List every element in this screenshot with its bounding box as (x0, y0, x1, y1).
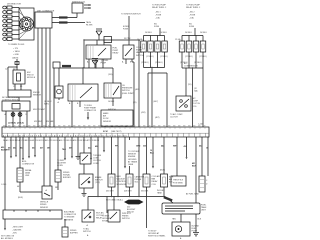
wire bus right drop (146, 197, 148, 229)
wire to prime connector (82, 68, 84, 84)
junction block on feed (104, 37, 112, 43)
ALDL side label (25, 169, 32, 177)
injector 6 (186, 41, 192, 52)
node tach junction (16, 66, 17, 67)
knock sensor label (33, 92, 42, 97)
svg-text:SET AND RESUME: SET AND RESUME (2, 96, 19, 99)
wire C2 label (115, 146, 120, 148)
wire A8 label (47, 148, 50, 150)
wire ECM A5 down (28, 137, 30, 159)
svg-text:GROUND AT: GROUND AT (148, 232, 160, 235)
svg-text:TACH: TACH (86, 21, 92, 24)
svg-text:SERIAL: SERIAL (25, 169, 32, 172)
wire ECM C2 to bus (117, 137, 119, 197)
wire ECM A8 to VSS (49, 137, 51, 186)
distributor label (7, 4, 22, 6)
svg-text:RELAY TERM. C: RELAY TERM. C (152, 6, 167, 9)
cutout pin label (87, 224, 89, 227)
svg-text:(39): (39) (133, 102, 137, 104)
bottom left list (12, 227, 24, 235)
svg-text:WOT A/C: WOT A/C (96, 212, 105, 215)
wire C9b label (184, 145, 187, 148)
node ac loop junction (151, 72, 152, 73)
wire ECM A10 down (64, 137, 66, 161)
wire cruise pin C to ECM (19, 111, 21, 127)
wire ignition feed (128, 16, 130, 45)
svg-text:(12 BLK): (12 BLK) (8, 123, 16, 125)
splice2 body (92, 61, 98, 69)
svg-text:(120): (120) (108, 74, 113, 76)
svg-text:- FUSE: - FUSE (189, 15, 196, 17)
wire ECM C9b down (186, 137, 188, 159)
left feed wire label (44, 101, 52, 106)
wire ECM A2b down (15, 137, 17, 157)
svg-text:AT FUEL TANK: AT FUEL TANK (186, 193, 200, 196)
wire EGR to bus (111, 187, 113, 197)
wire dist pin C to ECM (45, 28, 47, 127)
idle air solenoid (161, 174, 168, 187)
wire ALDL down (20, 182, 42, 192)
spark plug wire 6 (3, 29, 19, 32)
connector symbol pin C (18, 113, 22, 117)
oil switch lower label (108, 101, 115, 103)
svg-text:UNIT: UNIT (201, 210, 207, 212)
power steering switch (108, 210, 120, 222)
wire ECM A12 to ground (77, 137, 79, 156)
VSS label (40, 202, 49, 209)
svg-text:ALDL: ALDL (22, 160, 27, 163)
coil terminal arrow 2 (84, 7, 91, 9)
wire left injector rail (144, 35, 165, 37)
svg-text:452: 452 (20, 147, 23, 150)
svg-text:(467): (467) (154, 101, 159, 103)
fan relay label (152, 175, 162, 186)
wire ECM C11 to sensor conn (201, 137, 203, 176)
cold start relay K2 (123, 45, 134, 59)
distributor connector label (37, 11, 55, 13)
wire relay K2 pins (126, 59, 132, 64)
maf label (103, 112, 112, 123)
svg-text:389: 389 (55, 187, 58, 189)
canister label (135, 176, 145, 184)
wire esc feed (8, 67, 17, 90)
svg-text:(467): (467) (155, 117, 160, 119)
wire dist pin B to ECM (41, 28, 43, 127)
svg-text:451: 451 (8, 147, 11, 150)
fuel tank sender (162, 203, 200, 214)
connector symbol pin B (11, 113, 15, 117)
fuel pump (in-tank) (55, 86, 63, 100)
wire ECM A11 down (71, 137, 73, 159)
wire A7 label (40, 147, 43, 150)
svg-text:TO A/C: TO A/C (83, 228, 90, 231)
canister lower label (124, 191, 132, 193)
wire relay feed bus (84, 40, 140, 68)
power steering label (122, 213, 131, 220)
oil pressure switch (104, 83, 121, 98)
wire to oil pressure switch (112, 68, 114, 83)
wire EST to coil (52, 13, 77, 18)
fuel pump relay label (113, 48, 120, 55)
brake switch box (79, 174, 93, 188)
wire right injector rail (182, 35, 203, 37)
splice bus ground (88, 196, 165, 198)
wire A4 label (20, 147, 23, 150)
wire right injector feed (194, 28, 196, 36)
distributor internal wires (19, 8, 29, 40)
svg-text:CONNECTOR: CONNECTOR (84, 110, 97, 112)
svg-text:435 GRY: 435 GRY (106, 191, 114, 193)
svg-text:(59): (59) (188, 84, 192, 86)
svg-text:TANK: TANK (157, 192, 163, 195)
wire C12 label (206, 148, 208, 150)
wire C5 label (136, 146, 141, 148)
left rail labels (137, 32, 167, 41)
wire injector drops right (182, 36, 203, 42)
svg-text:- 10A: - 10A (155, 17, 160, 20)
wire C6b label (143, 146, 146, 148)
wire relay K1 pins (89, 59, 103, 68)
wire maf burnoff to ECM (138, 40, 140, 127)
cluster wire label (55, 187, 58, 189)
esc pin labels (5, 69, 15, 71)
above strip labels right (141, 112, 160, 119)
svg-text:(465): (465) (135, 89, 140, 91)
relay K1 pin labels (87, 61, 103, 64)
cruise pin labels (5, 113, 28, 116)
wire ECM B2 down (90, 137, 92, 161)
wire ECM C12 down (207, 137, 209, 176)
wire ECM A3 to ALDL (19, 137, 21, 168)
wire A2b label (13, 147, 17, 150)
ac feed label (188, 84, 192, 86)
connector C2 box (53, 62, 60, 68)
svg-text:- IGN: - IGN (12, 233, 17, 235)
wire ECM A9 down (57, 137, 59, 170)
ac clutch label (193, 97, 201, 108)
svg-text:DATA: DATA (25, 172, 30, 175)
wire right injector returns (182, 52, 203, 68)
svg-text:SIGNAL: SIGNAL (63, 174, 70, 177)
svg-text:(4 BLK): (4 BLK) (17, 122, 24, 125)
right injector fuse list (189, 12, 196, 29)
to fuel pump note (84, 105, 97, 112)
wire injector drops left (144, 36, 165, 42)
svg-text:LINK: LINK (25, 175, 30, 177)
right rail labels (175, 32, 207, 41)
wire ECM C9 to TPS (176, 137, 178, 176)
svg-text:CLUTCH: CLUTCH (170, 117, 178, 119)
wire left injector returns (144, 52, 165, 68)
sender ground label (198, 219, 202, 221)
svg-text:C-100: C-100 (1, 184, 6, 186)
wire ECM B4 down (103, 137, 105, 153)
wire sensor to cruise (18, 97, 20, 101)
injector 4 (162, 41, 168, 52)
wire ECM C5 to bus (138, 137, 140, 197)
relay K2 pin labels (122, 61, 132, 64)
svg-text:TAN: TAN (172, 218, 176, 221)
wire ECM B1 to TCC (83, 137, 85, 153)
svg-text:WHT): WHT) (44, 104, 49, 106)
svg-text:BLK: BLK (150, 153, 155, 155)
svg-text:THROTTLE: THROTTLE (173, 180, 184, 182)
cluster connector side label (63, 172, 71, 179)
svg-text:RELAY TERM. C: RELAY TERM. C (186, 6, 201, 9)
distributor cap housing (19, 8, 34, 40)
ECM connector strip (2, 127, 209, 137)
fuel pump relay K1 (86, 45, 111, 59)
EGR label (117, 176, 127, 186)
right injector wire labels (180, 56, 207, 64)
injector 8 (200, 41, 206, 52)
svg-text:MASS: MASS (103, 112, 109, 115)
svg-text:D6 A5 C10 B3 D11 A9: D6 A5 C10 B3 D11 A9 C13 B8 D14 A11 C18 B… (3, 139, 99, 142)
svg-text:TO SPARK PLUGS: TO SPARK PLUGS (8, 43, 25, 46)
svg-text:- 10A: - 10A (189, 17, 194, 20)
wire cruise pin A to ECM (5, 111, 7, 127)
fuel pump bus label (62, 65, 71, 67)
speed buffer box (62, 227, 68, 237)
AC cutout label (96, 212, 105, 220)
svg-text:NOT USED ON ALL: NOT USED ON ALL (106, 199, 123, 202)
svg-text:SENSOR: SENSOR (33, 95, 42, 97)
svg-text:459: 459 (69, 147, 72, 150)
spark plug wire 7 (3, 33, 19, 36)
ac compressor clutch (176, 96, 191, 111)
bus right note (148, 231, 165, 238)
svg-text:- GAUGES: - GAUGES (12, 229, 22, 232)
svg-text:BUFFER: BUFFER (63, 177, 71, 179)
svg-text:ECM: ECM (103, 131, 108, 133)
wire right bank down (192, 68, 194, 127)
ECM fuse label (123, 26, 131, 40)
svg-text:+ TACH: + TACH (13, 50, 20, 53)
wire dist pin D to ECM (49, 28, 51, 127)
idle air label (169, 177, 174, 184)
cruise module label (2, 96, 21, 102)
TCC label (93, 155, 102, 165)
svg-text:450: 450 (1, 146, 4, 149)
wire left injector bus (144, 67, 165, 69)
wire tach lead (16, 59, 18, 67)
bus junction nodes (97, 196, 164, 197)
svg-text:DK BLU: DK BLU (145, 32, 152, 34)
right end wire label (198, 124, 203, 126)
speed buffer label (70, 230, 78, 235)
svg-text:RIGHT KICK PANEL: RIGHT KICK PANEL (148, 235, 165, 238)
wire diag to tank (165, 197, 173, 204)
svg-text:SWITCH: SWITCH (122, 218, 130, 220)
wire sender ground (195, 214, 197, 232)
wire idle air to bus (163, 187, 165, 197)
tach filter label (86, 21, 93, 27)
svg-text:BLK: BLK (192, 166, 197, 168)
sensor return connector (199, 176, 205, 192)
wire left feed to ECM (53, 68, 55, 127)
fuel pump prime connector (68, 84, 98, 101)
svg-text:(17 BLK): (17 BLK) (141, 62, 149, 64)
ground fuel tank (193, 233, 199, 236)
wire dist pin A to ECM (37, 28, 39, 127)
wire EST bypass (52, 22, 85, 24)
wire B3 label (95, 145, 98, 148)
splice lozenge (124, 200, 144, 205)
wire ECM A1 down (4, 137, 6, 210)
fuel tank note (157, 190, 164, 195)
ac compressor label (184, 62, 198, 68)
arrow fuel pump prime (87, 112, 89, 120)
ignition switch feed label (121, 14, 141, 16)
svg-text:FUSE: FUSE (123, 29, 129, 31)
coil terminal arrow 1 (84, 4, 91, 6)
cluster connector (55, 170, 61, 182)
svg-text:424 TAN: 424 TAN (46, 120, 54, 123)
wire left bank to ECM (151, 68, 153, 128)
svg-text:+ 12V: + 12V (13, 48, 19, 50)
ac lower note (170, 113, 183, 119)
long wire labels (133, 89, 140, 104)
wire brake switch down (83, 188, 85, 193)
node right bus junction (192, 67, 193, 68)
bottom left note (1, 236, 15, 240)
wire maf pins (105, 126, 126, 127)
svg-text:(17 BLK): (17 BLK) (160, 56, 168, 58)
wire harness down (4, 219, 6, 224)
AC cutout switch (82, 210, 94, 222)
wire ECM A6 down (34, 137, 36, 158)
knock sensor module box (13, 70, 25, 84)
wire cruise pin D to ECM (26, 111, 28, 127)
svg-text:- INJ 1: - INJ 1 (155, 12, 161, 14)
fan lower label (141, 191, 149, 193)
mass air flow sensor (101, 110, 133, 126)
ECM strip cell dividers (8, 133, 206, 137)
svg-text:453: 453 (32, 147, 35, 150)
ECM strip pin ticks top (5, 127, 205, 129)
TPS box (171, 176, 186, 186)
fuel pump motor (172, 222, 190, 236)
wire ac loop (148, 73, 167, 127)
spark plug wire 3 (3, 15, 19, 18)
svg-text:12 GA: 12 GA (175, 38, 181, 41)
splice to fuel pump circuit (92, 58, 98, 60)
distributor connector box (35, 12, 52, 28)
svg-text:16: 16 (206, 148, 208, 150)
svg-text:DK BLU: DK BLU (160, 32, 167, 34)
wire canister to bus (129, 187, 131, 197)
fan relay coil (143, 174, 150, 187)
svg-text:DK BLU: DK BLU (185, 32, 192, 34)
bus left drop note (102, 216, 111, 223)
TPS text (173, 180, 184, 185)
wire left injector feed (159, 28, 161, 36)
svg-text:(BLK): (BLK) (18, 197, 23, 199)
spark plug wire 1 (3, 6, 19, 9)
wire sender to pump (180, 214, 182, 222)
knock module pin labels (13, 86, 22, 88)
svg-text:BLK/WHT: BLK/WHT (1, 150, 11, 152)
svg-text:C-100: C-100 (198, 124, 203, 126)
wire A11 label (69, 147, 72, 150)
svg-text:RELAY: RELAY (113, 52, 120, 55)
fuel pump feed label right (186, 5, 201, 10)
left bank wire label (154, 101, 159, 103)
wire C9 label (173, 146, 178, 148)
svg-text:MODULE: MODULE (27, 77, 36, 79)
wire right bus end to ECM (202, 68, 204, 127)
svg-text:COOLANT: COOLANT (152, 175, 162, 178)
EGR lower label (106, 191, 114, 193)
svg-text:FILTER: FILTER (86, 25, 93, 27)
tank wire label (163, 196, 172, 202)
svg-text:451: 451 (192, 162, 195, 165)
wire prime pin B (79, 101, 81, 107)
knock sensor module label (27, 72, 36, 79)
svg-text:PUMP: PUMP (101, 63, 107, 65)
svg-text:BRAKE: BRAKE (95, 176, 102, 179)
wire harness to buffer (64, 219, 66, 227)
wire fuel pump bus (60, 67, 113, 69)
EST wire label (59, 16, 68, 18)
svg-text:- SES LIGHT: - SES LIGHT (12, 227, 24, 229)
svg-text:C2: C2 (5, 69, 7, 71)
EST bypass label (59, 21, 68, 23)
cruise control module box (2, 101, 30, 111)
wire A1 labels (1, 146, 11, 186)
svg-text:SWITCH: SWITCH (136, 55, 144, 57)
ECM strip cell ids (3, 134, 127, 137)
oil pressure switch label (122, 85, 134, 95)
svg-text:RELAY: RELAY (152, 180, 159, 183)
wire ECM A7 to VSS (43, 137, 45, 186)
node prime feed (82, 67, 96, 68)
distributor cap circle (20, 17, 34, 31)
svg-text:SOL: SOL (135, 182, 139, 184)
injector 7 (193, 41, 199, 52)
splice2 label (101, 60, 109, 65)
cutout lower note (83, 228, 91, 238)
right bank wire label (194, 88, 198, 93)
svg-text:FUSE: FUSE (154, 26, 160, 28)
wire ECM B3 to bus (97, 137, 99, 197)
svg-text:428 GRY: 428 GRY (124, 191, 132, 193)
svg-text:+ GND: + GND (13, 54, 19, 56)
svg-text:COMPRESSOR: COMPRESSOR (184, 66, 198, 68)
instrument harness connector (3, 210, 62, 219)
wire TCC down (83, 164, 85, 174)
svg-text:430 PPL/WHT: 430 PPL/WHT (33, 109, 46, 111)
svg-text:422: 422 (88, 147, 91, 150)
left injector wire labels (141, 56, 168, 64)
fuel pump feed label left (152, 5, 167, 10)
ECM pin label row below (3, 139, 99, 142)
svg-text:TO IGNITION SWITCH: TO IGNITION SWITCH (121, 14, 141, 16)
node relay feed junctions (83, 39, 129, 40)
wire cold start to ECM (132, 62, 134, 127)
svg-text:410: 410 (184, 145, 187, 148)
svg-text:COIL: COIL (193, 106, 197, 108)
svg-text:(432): (432) (141, 112, 146, 114)
aldl wire label (17, 186, 23, 199)
svg-text:- INJ 2: - INJ 2 (189, 12, 195, 14)
tach lead list (12, 48, 20, 60)
wire ECM A2 down (10, 137, 12, 159)
wire C11 label (199, 145, 202, 148)
prime connector pin labels (69, 102, 79, 105)
svg-text:CONN: CONN (57, 165, 63, 167)
wire bus left drop (106, 197, 108, 214)
